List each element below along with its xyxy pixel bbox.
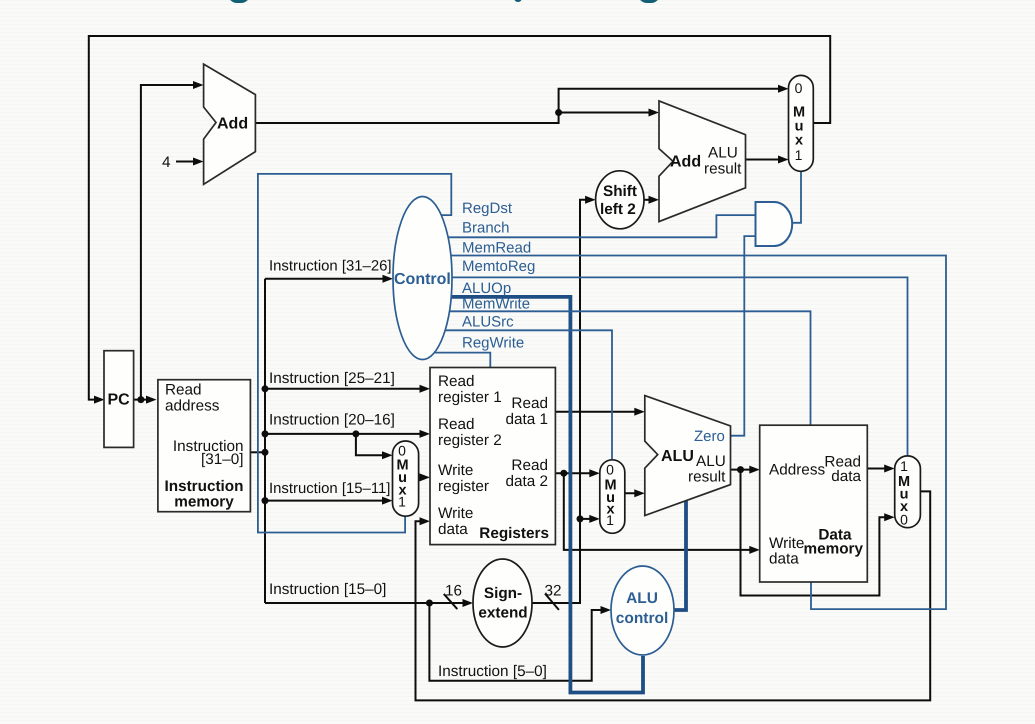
svg-text:ALUSrc: ALUSrc [462, 313, 514, 330]
wire MemRead from Control right side down to Data memory bottom [435, 256, 946, 610]
svg-text:Instruction [25–21]: Instruction [25–21] [269, 370, 395, 387]
mux write-register 0/1 [393, 441, 419, 516]
svg-text:MemWrite: MemWrite [462, 296, 530, 313]
svg-text:0: 0 [900, 512, 908, 528]
wire final mux output write-back to Registers Write data [416, 491, 931, 700]
control unit Control (blue ellipse) [393, 197, 452, 360]
wire Instruction [20-16] branch down to write-register mux 0 [352, 430, 392, 459]
net Branch label [462, 220, 510, 237]
svg-text:data 2: data 2 [505, 473, 548, 490]
wire Branch from Control to AND gate top input [435, 215, 756, 237]
wire Shift left 2 output into Add #2 lower input [644, 196, 659, 204]
wire Add #2 ALU result output to top mux 1 input [746, 156, 789, 164]
svg-text:Read: Read [511, 457, 548, 474]
node Instruction [15-11] label [269, 481, 390, 497]
control unit ALU control (blue ellipse) [611, 566, 674, 655]
wire RegDst from Control around left to write-register mux select [258, 174, 451, 533]
register file Registers [430, 368, 555, 545]
svg-text:memory: memory [803, 541, 863, 558]
wire PC output to Instruction memory read address [134, 396, 157, 404]
svg-text:ALU: ALU [708, 145, 738, 162]
svg-text:Read: Read [438, 416, 475, 433]
wire Instruction [5-0] down and right into ALU control [429, 603, 611, 681]
svg-text:0: 0 [398, 443, 406, 459]
svg-text:1: 1 [398, 494, 406, 510]
wire PC-feedback loop: mux output right, up, across top, down left side into PC [89, 36, 830, 404]
wire ALUOp thick from Control down to ALU control [435, 297, 643, 693]
svg-text:extend: extend [478, 605, 527, 622]
wire branch up to top mux 0 input [559, 85, 789, 113]
svg-text:Sign-: Sign- [484, 585, 522, 602]
wire ALU result under Data memory to final mux 0 input [741, 470, 895, 596]
net RegWrite label [462, 334, 524, 351]
svg-text:32: 32 [545, 583, 562, 600]
svg-text:4: 4 [162, 154, 171, 171]
net MemRead label [462, 239, 531, 256]
svg-text:MemRead: MemRead [462, 239, 531, 256]
net MemtoReg label [462, 258, 535, 275]
svg-text:RegDst: RegDst [462, 200, 513, 217]
memory Instruction memory [158, 380, 251, 512]
wire ALUSrc from Control down to ALUSrc mux top select [435, 330, 612, 459]
wire Read data 1 to ALU top input [555, 408, 644, 416]
net RegDst label [462, 200, 513, 217]
wire Data memory Read data to final mux 1 input [866, 465, 895, 473]
svg-text:data: data [769, 551, 799, 568]
mux branch (top right) 0/1 [789, 75, 814, 171]
wire Instruction [15-11] to write-register mux 1 [262, 497, 393, 505]
svg-text:Zero: Zero [694, 428, 725, 445]
wire Read data 2 down to Data memory Write data [564, 473, 760, 554]
svg-text:ALU: ALU [626, 590, 658, 607]
register PC [104, 351, 134, 448]
node 4 constant into Add #1 lower input [162, 154, 204, 171]
svg-text:Shift: Shift [603, 183, 637, 200]
bus width slash 16 [444, 583, 462, 610]
svg-text:Add: Add [670, 154, 701, 171]
wire Instruction memory output to bus [250, 449, 268, 456]
svg-text:Instruction: Instruction [164, 478, 243, 495]
svg-text:Write: Write [438, 462, 473, 479]
svg-text:MemtoReg: MemtoReg [462, 258, 535, 275]
svg-text:1: 1 [900, 458, 908, 474]
svg-text:Instruction [20–16]: Instruction [20–16] [269, 412, 395, 429]
memory Data memory [760, 425, 868, 582]
wire Read data 2 to ALUSrc mux 0 [555, 469, 599, 477]
adder Add (PC+4) [204, 64, 256, 184]
bus width slash 32 [545, 583, 562, 610]
gate AND (branch and zero) [756, 202, 793, 246]
svg-text:control: control [616, 610, 669, 627]
svg-text:0: 0 [606, 462, 614, 478]
net ALUSrc label [462, 313, 514, 330]
node Instruction [25-21] label [269, 370, 395, 387]
wire ALU result to Data memory Address [731, 466, 760, 474]
wire PC output up to Add #1 top input [141, 81, 204, 400]
mux MemtoReg (final, 1/0) [895, 456, 921, 528]
adder Add #2 (branch target, ALU result) [659, 101, 746, 222]
net ALUOp label [462, 280, 511, 297]
svg-text:left 2: left 2 [600, 201, 636, 218]
svg-text:[31–0]: [31–0] [201, 451, 244, 468]
svg-text:address: address [165, 398, 220, 415]
wire RegWrite from Control down to Registers top [435, 353, 490, 368]
svg-text:Instruction [31–26]: Instruction [31–26] [269, 259, 392, 275]
svg-text:data: data [831, 468, 861, 485]
svg-text:result: result [704, 161, 742, 178]
svg-text:PC: PC [108, 392, 131, 409]
wire Instruction [15-0] to Sign-extend [265, 599, 473, 607]
svg-text:Instruction [15–0]: Instruction [15–0] [269, 581, 386, 598]
svg-text:Instruction [15–11]: Instruction [15–11] [269, 481, 390, 497]
wire ALU control output thick to ALU bottom [670, 501, 686, 610]
wire Add #1 output to junction, to Add #2 top input [255, 109, 659, 124]
node Instruction [15-0] label [269, 581, 386, 598]
svg-text:memory: memory [174, 494, 234, 511]
svg-text:Add: Add [217, 116, 248, 133]
svg-text:16: 16 [445, 583, 462, 600]
svg-text:data: data [438, 521, 468, 538]
wire ALUSrc mux output to ALU lower input [625, 489, 645, 497]
svg-text:data 1: data 1 [505, 411, 548, 428]
svg-text:register: register [438, 478, 489, 495]
svg-text:Control: Control [394, 271, 451, 288]
svg-text:register 1: register 1 [438, 389, 502, 406]
wire Zero from ALU up to AND gate bottom input [731, 236, 757, 436]
wire Sign-extend output up to shift-left-2 and ALUSrc mux 1 [532, 196, 600, 603]
node Instruction [5-0] label [438, 663, 547, 680]
svg-text:Branch: Branch [462, 220, 510, 237]
svg-text:register 2: register 2 [438, 432, 502, 449]
svg-text:Read: Read [165, 382, 202, 399]
svg-text:1: 1 [606, 512, 614, 528]
sign extender Sign-extend [473, 559, 532, 647]
wire Instruction [25-21] to Read register 1 [262, 385, 431, 393]
title descender remnants (teal) [228, 0, 250, 3]
alu ALU (main) [645, 396, 731, 516]
svg-text:Address: Address [769, 462, 825, 479]
svg-text:1: 1 [795, 147, 803, 163]
svg-text:0: 0 [795, 80, 803, 96]
svg-text:Read: Read [511, 395, 548, 412]
svg-text:RegWrite: RegWrite [462, 334, 524, 351]
net MemWrite label [462, 296, 530, 313]
wire Instruction [31-26] into Control [265, 275, 393, 283]
svg-text:ALUOp: ALUOp [462, 280, 511, 297]
svg-text:Write: Write [438, 505, 473, 522]
node Instruction [31-26] label [269, 259, 392, 275]
wire MemWrite from Control down to Data memory top [435, 311, 811, 425]
block Shift left 2 [596, 171, 644, 229]
svg-text:Read: Read [438, 373, 475, 390]
wire instruction bus vertical from control input down to instruction [15-0] [264, 279, 266, 603]
svg-text:Registers: Registers [479, 525, 549, 542]
mux ALUSrc 0/1 [600, 460, 625, 534]
wire MemtoReg from Control to final mux top select [435, 277, 908, 455]
wire AND gate output up to top mux select [792, 172, 802, 223]
wire Instruction [20-16] to Read register 2 [262, 430, 431, 438]
wire write-register mux output to Write register port [419, 473, 430, 481]
svg-text:Write: Write [769, 535, 804, 552]
svg-text:result: result [688, 469, 726, 486]
node Instruction [20-16] label [269, 412, 395, 429]
svg-text:ALU: ALU [661, 448, 694, 465]
svg-text:Instruction [5–0]: Instruction [5–0] [438, 663, 547, 680]
svg-text:ALU: ALU [696, 453, 726, 470]
